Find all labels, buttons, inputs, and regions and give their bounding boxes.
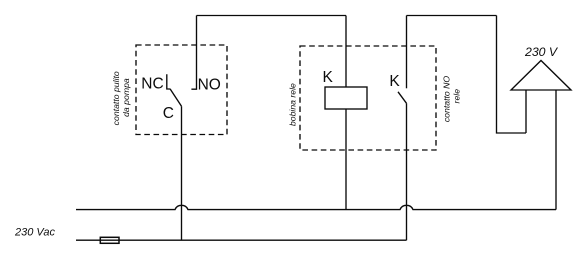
wire: coil top drop [345, 16, 347, 88]
svg-text:230 V: 230 V [524, 45, 559, 59]
svg-text:K: K [389, 73, 400, 90]
node NC terminal [167, 74, 170, 89]
svg-text:C: C [163, 105, 174, 122]
svg-text:bobina rele: bobina rele [288, 83, 298, 126]
svg-text:NC: NC [141, 75, 163, 92]
arrow 230V: shaft left side [525, 90, 527, 133]
phase bus 230Vac [76, 239, 407, 241]
fuse F [100, 237, 119, 243]
arrow 230V: triangle head [511, 61, 571, 91]
switch blade K contact (open) [398, 92, 407, 104]
svg-text:230 Vac: 230 Vac [14, 227, 55, 239]
dashed box: contatto pulito da pompa [136, 45, 227, 135]
svg-text:contatto NO: contatto NO [441, 76, 451, 123]
wire: relay contact top drop [406, 16, 408, 89]
svg-text:K: K [323, 69, 334, 86]
wire: relay contact bottom drop to phase bus [406, 103, 408, 240]
wire: right vertical and link into arrow shaft [497, 16, 527, 134]
wire: NO terminal drop with end tick [191, 16, 196, 90]
svg-text:NO: NO [198, 77, 221, 94]
relay coil K rectangle [325, 87, 367, 109]
wire: top link from relay NO contact to 230V arrow [407, 15, 497, 17]
svg-text:contatto pulito: contatto pulito [111, 71, 121, 125]
dashed box: rele [300, 46, 436, 150]
arrow 230V: shaft right side down to neutral bus [555, 90, 557, 210]
wire: coil bottom drop to neutral bus [345, 109, 347, 210]
switch blade C-NC (pump contact) [170, 89, 182, 107]
svg-text:rele: rele [452, 89, 462, 104]
neutral bus with hops at x=181.5 and x=406.5 [76, 205, 556, 209]
wire: C drop to phase bus [181, 106, 183, 240]
svg-text:da pompa: da pompa [121, 78, 131, 117]
wire: top link from pump NO contact to relay coil [197, 15, 347, 17]
